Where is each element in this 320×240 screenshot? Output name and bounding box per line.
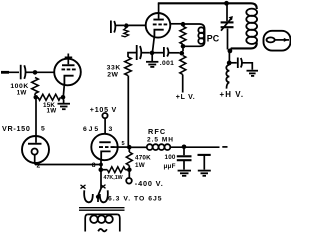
svg-text:RFC: RFC [148,127,166,136]
svg-text:6J5: 6J5 [83,126,100,133]
svg-text:3: 3 [109,126,113,133]
svg-text:1W: 1W [47,108,57,115]
svg-text:.001: .001 [160,60,174,67]
svg-text:33K: 33K [107,64,121,71]
svg-text:2.5 MH: 2.5 MH [147,136,174,143]
svg-text:8: 8 [92,162,96,169]
svg-text:1W: 1W [17,90,27,97]
svg-text:470K: 470K [135,154,151,161]
svg-text:1W: 1W [135,162,145,169]
svg-text:5: 5 [41,125,45,132]
svg-text:100: 100 [165,154,176,161]
svg-text:2W: 2W [107,71,118,78]
svg-text:47K,1W: 47K,1W [104,175,123,181]
svg-text:PC: PC [207,33,220,43]
svg-text:VR-150: VR-150 [2,124,31,133]
svg-text:μμF: μμF [164,163,176,170]
svg-text:5: 5 [122,141,125,147]
svg-text:6.3 V. TO 6J5: 6.3 V. TO 6J5 [108,196,163,203]
svg-text:+H V.: +H V. [220,90,245,99]
svg-text:-400 V.: -400 V. [135,179,164,188]
svg-text:+L V.: +L V. [176,94,196,101]
